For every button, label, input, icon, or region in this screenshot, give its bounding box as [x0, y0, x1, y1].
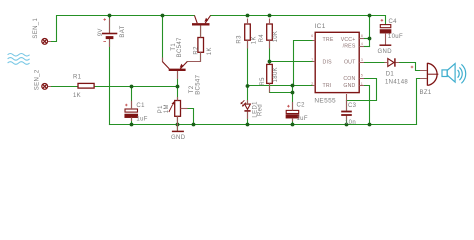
svg-text:BC547: BC547	[196, 74, 202, 94]
svg-text:NE555: NE555	[314, 98, 336, 105]
svg-text:9V: 9V	[98, 28, 104, 36]
svg-text:TRE: TRE	[323, 37, 334, 43]
svg-text:1K: 1K	[73, 93, 81, 99]
svg-text:D1: D1	[386, 71, 395, 77]
svg-text:1uF: 1uF	[297, 116, 308, 122]
svg-text:GND: GND	[343, 83, 355, 89]
svg-text:1K: 1K	[252, 36, 258, 44]
svg-text:3: 3	[361, 58, 363, 62]
svg-text:OUT: OUT	[344, 59, 356, 65]
svg-text:1M: 1M	[164, 104, 170, 113]
svg-text:8: 8	[361, 34, 363, 38]
svg-text:BAT: BAT	[120, 25, 126, 37]
svg-text:10K: 10K	[273, 31, 279, 43]
svg-text:10uF: 10uF	[388, 34, 403, 40]
svg-text:TRI: TRI	[323, 83, 332, 89]
svg-text:2: 2	[311, 82, 313, 86]
svg-text:CON: CON	[343, 76, 355, 82]
svg-text:VCC+: VCC+	[341, 37, 356, 43]
svg-text:R3: R3	[237, 35, 243, 44]
svg-text:1uF: 1uF	[136, 116, 147, 122]
svg-text:1N4148: 1N4148	[385, 80, 408, 86]
svg-text:C3: C3	[348, 103, 357, 109]
svg-text:SEN_1: SEN_1	[33, 18, 39, 39]
svg-text:BZ1: BZ1	[420, 90, 432, 96]
svg-text:T2: T2	[189, 85, 195, 93]
svg-text:BC547: BC547	[177, 37, 183, 57]
svg-text:R1: R1	[73, 74, 82, 80]
svg-text:Red: Red	[258, 104, 264, 116]
svg-text:C2: C2	[297, 102, 306, 108]
svg-text:1K: 1K	[207, 47, 213, 55]
svg-text:5: 5	[361, 74, 363, 78]
svg-text:7: 7	[311, 58, 313, 62]
svg-text:SEN_2: SEN_2	[34, 69, 40, 90]
svg-text:R4: R4	[259, 34, 265, 43]
svg-text:C1: C1	[136, 103, 145, 109]
svg-text:GND: GND	[171, 135, 186, 141]
svg-text:C4: C4	[389, 19, 398, 25]
svg-text:GND: GND	[378, 49, 393, 55]
svg-text:1: 1	[361, 82, 363, 86]
svg-text:DIS: DIS	[323, 59, 333, 65]
svg-text:6: 6	[311, 34, 313, 38]
svg-text:10n: 10n	[345, 120, 356, 126]
svg-text:180K: 180K	[273, 67, 279, 82]
svg-text:R5: R5	[260, 77, 266, 86]
svg-text:4: 4	[361, 42, 363, 46]
svg-text:R2: R2	[194, 46, 200, 55]
svg-text:IC1: IC1	[315, 23, 326, 30]
svg-text:/RES: /RES	[343, 44, 356, 50]
